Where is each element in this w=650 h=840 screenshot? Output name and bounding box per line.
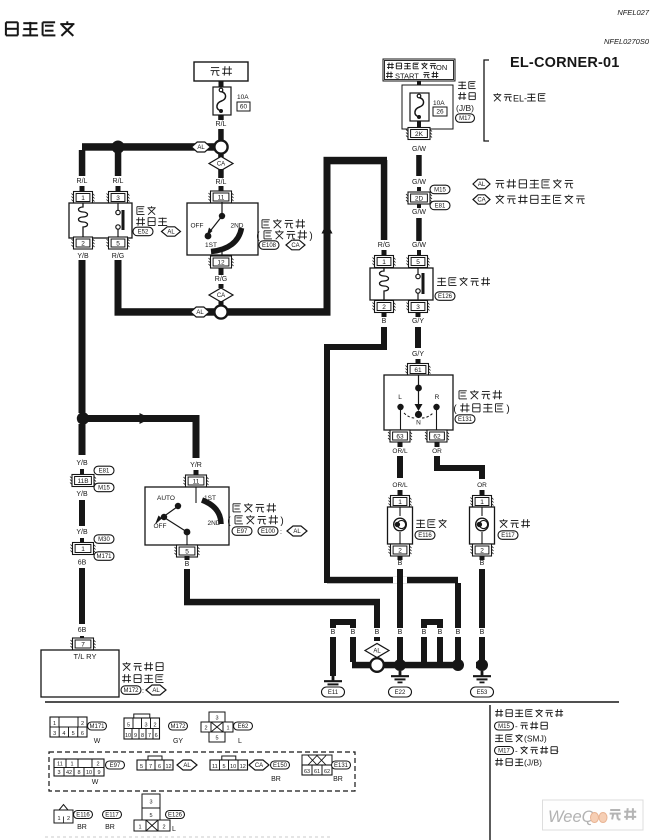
- svg-text:6: 6: [81, 731, 84, 737]
- svg-text:11: 11: [212, 764, 218, 770]
- svg-text:): ): [309, 231, 312, 242]
- svg-text:B: B: [398, 560, 403, 567]
- svg-text:E150: E150: [273, 763, 288, 769]
- svg-text:1: 1: [398, 499, 402, 506]
- svg-text:2D: 2D: [415, 195, 424, 202]
- svg-text:2K: 2K: [415, 131, 424, 138]
- svg-text:12: 12: [240, 764, 246, 770]
- svg-text:5: 5: [215, 736, 218, 742]
- svg-text:1: 1: [81, 546, 85, 553]
- svg-text:1: 1: [53, 721, 56, 727]
- svg-text:AL: AL: [373, 649, 381, 655]
- svg-text:3: 3: [144, 722, 147, 728]
- svg-text:R/G: R/G: [112, 253, 124, 260]
- svg-text:5: 5: [416, 259, 420, 266]
- svg-text:B: B: [480, 629, 485, 636]
- svg-text:-: -: [515, 747, 518, 756]
- svg-text:5: 5: [149, 813, 152, 819]
- svg-text:1ST: 1ST: [205, 242, 217, 249]
- svg-text:3: 3: [57, 770, 60, 776]
- svg-text:AL: AL: [167, 230, 175, 236]
- svg-text:60: 60: [240, 104, 248, 111]
- svg-text:BR: BR: [105, 824, 115, 831]
- svg-text:61: 61: [314, 769, 320, 775]
- svg-text:E53: E53: [477, 690, 488, 696]
- svg-text:E117: E117: [105, 813, 119, 819]
- svg-text:CA: CA: [217, 293, 225, 299]
- svg-text:W: W: [94, 738, 101, 745]
- svg-text:AL: AL: [197, 145, 205, 151]
- svg-text:L: L: [172, 826, 176, 833]
- svg-text:G/W: G/W: [412, 179, 426, 186]
- svg-text:M171: M171: [96, 554, 112, 560]
- svg-text:7: 7: [149, 764, 152, 770]
- svg-text:EL-CORNER-01: EL-CORNER-01: [510, 55, 620, 71]
- svg-text:(J/B): (J/B): [524, 758, 542, 768]
- svg-text:1: 1: [226, 726, 229, 732]
- svg-text:3: 3: [116, 195, 120, 202]
- svg-text:2: 2: [67, 816, 70, 822]
- svg-text:E81: E81: [435, 204, 446, 210]
- svg-text:M30: M30: [98, 537, 110, 543]
- svg-text:M17: M17: [459, 116, 471, 122]
- svg-text:OFF: OFF: [191, 223, 204, 230]
- svg-text:E52: E52: [138, 230, 149, 236]
- svg-text:10A: 10A: [237, 94, 249, 101]
- svg-text:G/Y: G/Y: [412, 351, 424, 358]
- svg-text:2: 2: [96, 761, 99, 767]
- svg-text:-: -: [556, 747, 559, 756]
- svg-text:CA: CA: [291, 243, 299, 249]
- svg-text:B: B: [480, 560, 485, 567]
- svg-text:3: 3: [149, 800, 152, 806]
- svg-text:R/G: R/G: [215, 276, 227, 283]
- svg-text:E100: E100: [261, 529, 276, 535]
- svg-text:Y/B: Y/B: [77, 253, 89, 260]
- svg-text:B: B: [375, 629, 380, 636]
- svg-text:NFEL027: NFEL027: [617, 8, 650, 17]
- svg-text:NFEL0270S0: NFEL0270S0: [604, 37, 650, 46]
- svg-text:L: L: [238, 738, 242, 745]
- svg-text:E11: E11: [328, 690, 339, 696]
- svg-text:B: B: [398, 629, 403, 636]
- svg-text:OR: OR: [477, 482, 487, 489]
- svg-text:1: 1: [70, 761, 73, 767]
- svg-text:2: 2: [153, 722, 156, 728]
- svg-text:12: 12: [165, 764, 171, 770]
- svg-text:M172: M172: [123, 688, 139, 694]
- svg-text:L: L: [398, 394, 402, 401]
- svg-text:2: 2: [480, 547, 484, 554]
- svg-text:11: 11: [57, 761, 63, 767]
- svg-text:B: B: [422, 629, 427, 636]
- svg-text:5: 5: [185, 548, 189, 555]
- svg-text:1: 1: [138, 825, 141, 831]
- svg-text:1: 1: [57, 816, 60, 822]
- svg-text:): ): [506, 404, 509, 415]
- svg-text:M172: M172: [170, 724, 186, 730]
- svg-text:12: 12: [217, 259, 225, 266]
- svg-text:-: -: [515, 722, 518, 731]
- svg-text:3: 3: [416, 304, 420, 311]
- svg-text:6B: 6B: [78, 627, 87, 634]
- svg-text:CA: CA: [217, 162, 225, 168]
- svg-text:9: 9: [134, 733, 137, 739]
- svg-text:2: 2: [382, 304, 386, 311]
- svg-text:(SMJ): (SMJ): [524, 734, 547, 744]
- svg-text:EL-: EL-: [513, 94, 527, 104]
- svg-text:B: B: [351, 629, 356, 636]
- svg-text:5: 5: [127, 722, 130, 728]
- svg-text:6: 6: [158, 764, 161, 770]
- svg-text:CA: CA: [477, 198, 485, 204]
- svg-text:9: 9: [97, 770, 100, 776]
- svg-text:E97: E97: [110, 763, 121, 769]
- svg-text:63: 63: [304, 769, 310, 775]
- svg-text:R/L: R/L: [77, 178, 88, 185]
- svg-text:AL: AL: [183, 763, 191, 769]
- svg-text:START: START: [395, 72, 419, 81]
- svg-text:BR: BR: [333, 776, 343, 783]
- svg-text:7: 7: [148, 733, 151, 739]
- svg-text:Y/B: Y/B: [76, 491, 88, 498]
- svg-text:R/L: R/L: [113, 178, 124, 185]
- svg-text:M171: M171: [89, 724, 105, 730]
- svg-text::: :: [142, 688, 144, 695]
- svg-text:11: 11: [218, 194, 225, 201]
- svg-text:AL: AL: [293, 529, 301, 535]
- svg-text:M15: M15: [498, 724, 510, 730]
- svg-text:GY: GY: [173, 738, 183, 745]
- svg-text:B: B: [185, 561, 190, 568]
- svg-text:8: 8: [141, 733, 144, 739]
- svg-text:B: B: [382, 318, 387, 325]
- svg-text:R/L: R/L: [216, 121, 227, 128]
- svg-text:5: 5: [72, 731, 75, 737]
- svg-text:Y/B: Y/B: [76, 529, 88, 536]
- svg-text:26: 26: [436, 109, 444, 116]
- svg-text:E22: E22: [395, 690, 406, 696]
- svg-text:63: 63: [396, 433, 404, 440]
- svg-text:AL: AL: [478, 182, 486, 188]
- svg-text:2: 2: [162, 825, 165, 831]
- svg-text:G/W: G/W: [412, 146, 426, 153]
- svg-text:OR: OR: [432, 448, 442, 455]
- svg-text:AUTO: AUTO: [157, 495, 175, 502]
- svg-text:W: W: [92, 779, 99, 786]
- svg-text:AL: AL: [152, 688, 160, 694]
- svg-text:OR/L: OR/L: [392, 482, 408, 489]
- svg-text:N: N: [416, 420, 421, 427]
- svg-text:ON: ON: [436, 63, 447, 72]
- svg-text:6B: 6B: [78, 560, 87, 567]
- svg-text:10: 10: [125, 733, 131, 739]
- svg-text:E116: E116: [76, 813, 90, 819]
- svg-text:2: 2: [204, 726, 207, 732]
- svg-text:CA: CA: [255, 763, 263, 769]
- svg-text:6: 6: [155, 733, 158, 739]
- svg-text:61: 61: [414, 367, 422, 374]
- svg-text:10A: 10A: [433, 100, 445, 107]
- svg-text:B: B: [438, 629, 443, 636]
- svg-text:E81: E81: [99, 469, 110, 475]
- svg-text:M17: M17: [498, 749, 510, 755]
- svg-text:T/L RY: T/L RY: [74, 652, 97, 661]
- svg-text:5: 5: [140, 764, 143, 770]
- svg-text:2: 2: [398, 547, 402, 554]
- svg-text:G/W: G/W: [412, 209, 426, 216]
- svg-text:10: 10: [86, 770, 92, 776]
- svg-text:62: 62: [433, 433, 441, 440]
- svg-text:5: 5: [222, 764, 225, 770]
- svg-text:BR: BR: [271, 776, 281, 783]
- svg-text:8: 8: [77, 770, 80, 776]
- svg-text:3: 3: [53, 731, 56, 737]
- svg-text:E126: E126: [438, 294, 453, 300]
- svg-text:1: 1: [480, 499, 484, 506]
- svg-text:E131: E131: [458, 417, 473, 423]
- svg-text:AL: AL: [196, 310, 204, 316]
- svg-text:M15: M15: [434, 188, 446, 194]
- svg-text:5: 5: [116, 240, 120, 247]
- svg-text:1: 1: [382, 259, 386, 266]
- svg-text:BR: BR: [77, 824, 87, 831]
- svg-text:E131: E131: [334, 763, 349, 769]
- svg-text:E62: E62: [238, 724, 249, 730]
- svg-text:WeeQ: WeeQ: [548, 808, 595, 826]
- svg-text:2: 2: [81, 240, 85, 247]
- svg-text:3: 3: [215, 716, 218, 722]
- svg-text::: :: [280, 529, 282, 536]
- svg-text:R/G: R/G: [378, 242, 390, 249]
- svg-text:G/Y: G/Y: [412, 318, 424, 325]
- svg-text:Y/R: Y/R: [190, 462, 202, 469]
- svg-text:E116: E116: [418, 533, 432, 539]
- svg-text:11B: 11B: [77, 478, 88, 485]
- svg-text:62: 62: [324, 769, 330, 775]
- svg-text:E126: E126: [168, 813, 183, 819]
- svg-text:M15: M15: [98, 486, 110, 492]
- svg-text:R/L: R/L: [216, 179, 227, 186]
- svg-text:1: 1: [81, 195, 85, 202]
- svg-text:B: B: [456, 629, 461, 636]
- svg-text:B: B: [331, 629, 336, 636]
- svg-text:G/W: G/W: [412, 242, 426, 249]
- svg-text:4: 4: [62, 731, 65, 737]
- svg-text:E117: E117: [501, 533, 515, 539]
- svg-text:Y/B: Y/B: [76, 460, 88, 467]
- svg-text:E97: E97: [237, 529, 248, 535]
- svg-text:11: 11: [193, 478, 200, 485]
- svg-text:(J/B): (J/B): [456, 103, 474, 113]
- svg-text:42: 42: [66, 770, 72, 776]
- svg-text:OR/L: OR/L: [392, 448, 408, 455]
- svg-text:E108: E108: [262, 243, 277, 249]
- svg-text:2: 2: [81, 721, 84, 727]
- svg-text:): ): [280, 516, 283, 527]
- svg-text:7: 7: [81, 641, 85, 648]
- svg-text:10: 10: [230, 764, 236, 770]
- svg-text:R: R: [435, 394, 440, 401]
